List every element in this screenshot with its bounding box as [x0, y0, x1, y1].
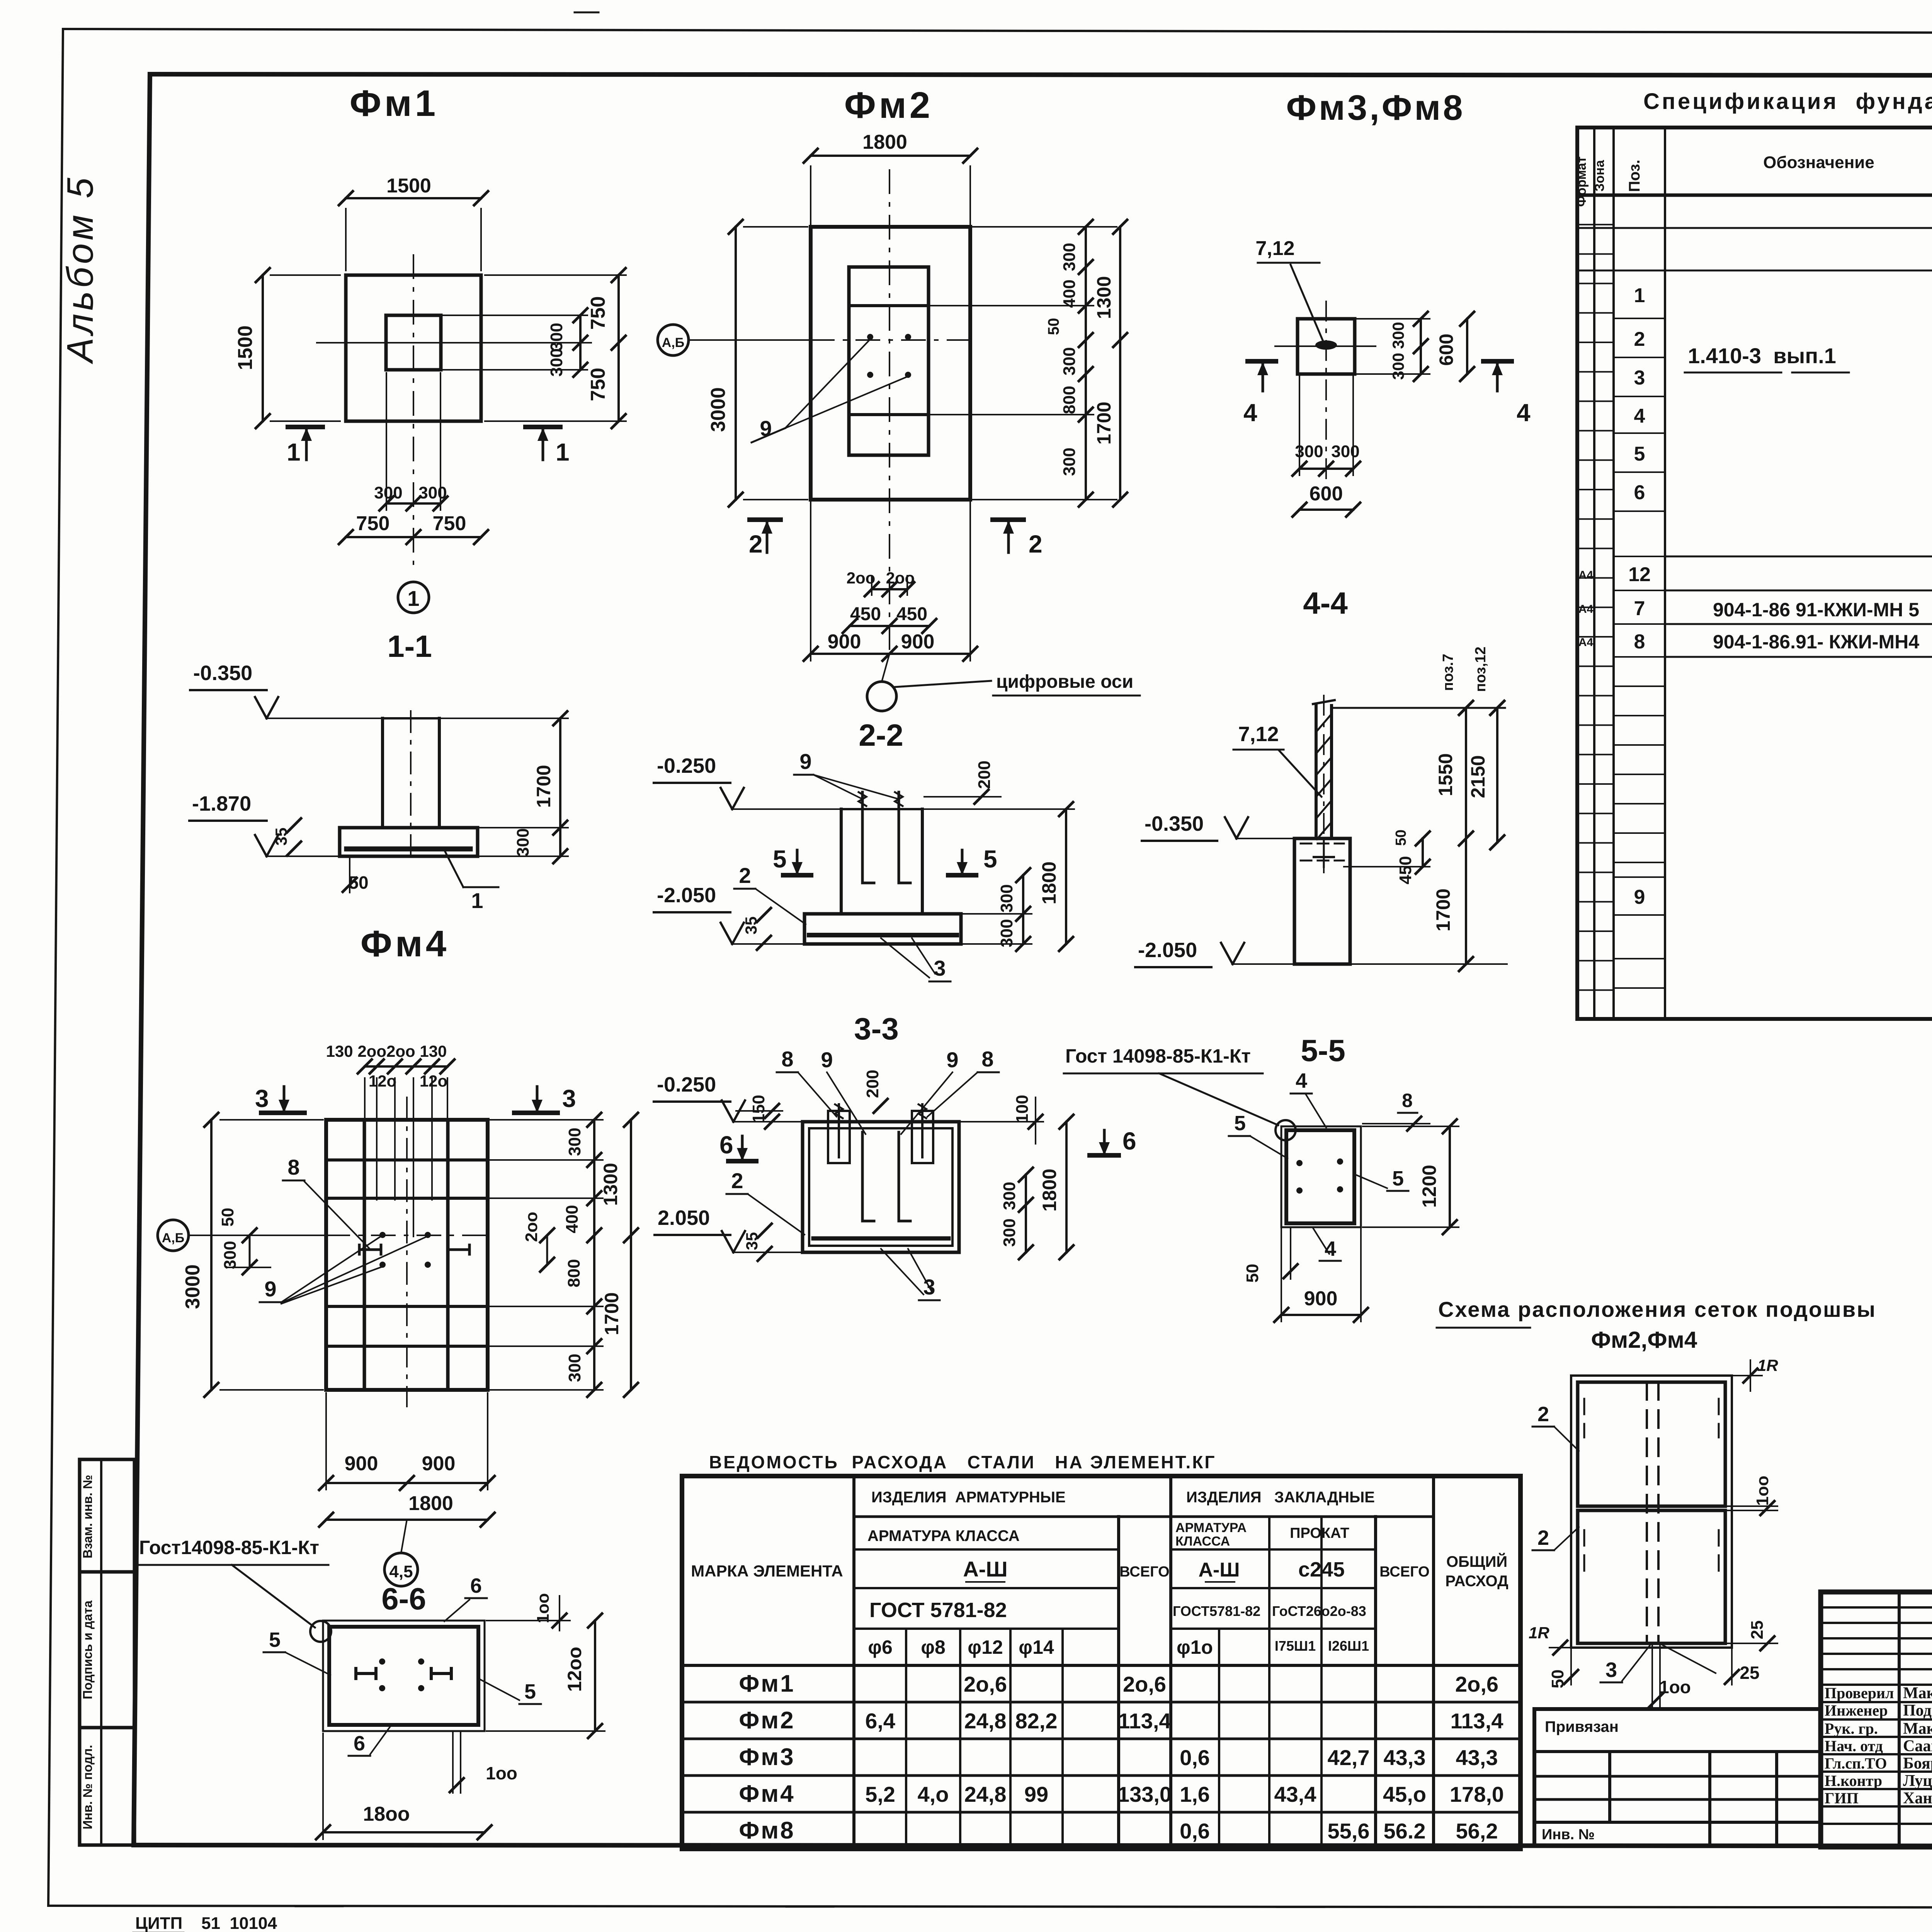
plan Фм3 footprint: [1275, 301, 1376, 479]
section 2-2 level -0.250: [654, 754, 839, 809]
svg-text:2о,6: 2о,6: [1455, 1672, 1498, 1696]
svg-text:1оо: 1оо: [534, 1593, 553, 1623]
svg-text:4,5: 4,5: [389, 1562, 413, 1581]
svg-text:99: 99: [1024, 1782, 1048, 1806]
plan Фм1 dims 750 750 right: [485, 268, 626, 428]
svg-text:Гл.сп.ТО: Гл.сп.ТО: [1825, 1755, 1887, 1772]
svg-text:300: 300: [374, 483, 402, 502]
svg-text:Проверил: Проверил: [1825, 1684, 1894, 1702]
svg-text:Ханин: Ханин: [1903, 1789, 1932, 1807]
section 4-4 leader 7,12: [1233, 723, 1321, 797]
svg-text:ОБЩИЙ: ОБЩИЙ: [1446, 1553, 1507, 1570]
svg-text:24,8: 24,8: [964, 1782, 1007, 1806]
section 3-3 leader 3: [881, 1249, 940, 1300]
svg-text:А4: А4: [1578, 636, 1594, 649]
section 5-5 leader 4 top: [1291, 1069, 1326, 1128]
svg-text:300: 300: [1295, 442, 1323, 461]
svg-text:4,о: 4,о: [918, 1782, 949, 1806]
section 2-2 leader 3: [881, 938, 951, 981]
plan Фм1 dims 750 750 bottom: [339, 512, 488, 544]
svg-text:800: 800: [565, 1259, 583, 1287]
plan Фм3 dim 600 bottom: [1293, 483, 1360, 517]
svg-text:750: 750: [433, 512, 466, 535]
mesh leader 3: [1600, 1645, 1716, 1682]
plan Фм1 dims 300 300 bottom: [374, 373, 447, 510]
svg-text:900: 900: [345, 1452, 378, 1475]
svg-text:φ1о: φ1о: [1177, 1636, 1213, 1658]
svg-text:2: 2: [1537, 1403, 1549, 1426]
svg-text:1800: 1800: [408, 1492, 453, 1515]
plan Фм1 dims 300 300 right: [441, 308, 587, 377]
svg-text:1: 1: [287, 438, 301, 466]
svg-text:А,Б: А,Б: [162, 1231, 184, 1245]
svg-text:Альбом 5: Альбом 5: [60, 175, 101, 364]
svg-text:-0.350: -0.350: [193, 662, 252, 685]
svg-text:300: 300: [565, 1128, 584, 1156]
mesh dim 25 bottom right: [1725, 1649, 1760, 1685]
svg-text:Подпись и дата: Подпись и дата: [80, 1600, 95, 1699]
svg-text:Н.контр: Н.контр: [1825, 1772, 1882, 1789]
mesh mark 1R top: [1732, 1356, 1778, 1391]
svg-text:900: 900: [828, 631, 861, 653]
svg-text:цифровые оси: цифровые оси: [996, 672, 1133, 692]
svg-text:2: 2: [749, 530, 763, 558]
svg-text:1800: 1800: [862, 131, 907, 153]
section 1-1 level -0.350: [190, 662, 381, 718]
mesh layout title: [1437, 1297, 1876, 1353]
svg-text:Гост14098-85-К1-Кт: Гост14098-85-К1-Кт: [139, 1537, 319, 1558]
specification table grid: [1577, 89, 1932, 1020]
svg-text:6: 6: [719, 1131, 733, 1159]
svg-text:МАРКА ЭЛЕМЕНТА: МАРКА ЭЛЕМЕНТА: [691, 1562, 843, 1580]
steel consumption table grid: [682, 1452, 1520, 1849]
svg-text:300: 300: [997, 884, 1016, 912]
section 3-3 sect mark 6 left: [719, 1131, 756, 1161]
svg-text:5,2: 5,2: [865, 1782, 895, 1806]
svg-text:-0.250: -0.250: [657, 1073, 716, 1096]
mesh layout drawing: [1571, 1376, 1732, 1648]
svg-text:1оо: 1оо: [486, 1763, 517, 1783]
section 3-3 footing pockets rebars: [803, 1104, 959, 1252]
left stamp sidebar: [80, 1459, 134, 1845]
section 5-5 pier cross-section: [1281, 1126, 1361, 1227]
svg-text:904-1-86.91- КЖИ-МН4: 904-1-86.91- КЖИ-МН4: [1713, 631, 1919, 653]
svg-text:100: 100: [1013, 1095, 1032, 1123]
svg-text:904-1-86 91-КЖИ-МН 5: 904-1-86 91-КЖИ-МН 5: [1713, 599, 1919, 621]
album label: [60, 175, 101, 364]
svg-text:I26Ш1: I26Ш1: [1328, 1638, 1369, 1654]
top margin dash: [575, 12, 599, 14]
plan Фм3 dims 300 300 right: [1355, 312, 1430, 381]
svg-text:-0.350: -0.350: [1145, 812, 1204, 835]
svg-text:3: 3: [562, 1085, 576, 1112]
svg-text:Подобный: Подобный: [1903, 1702, 1932, 1719]
section 1-1 dim 50: [343, 858, 369, 893]
svg-text:Фм2,Фм4: Фм2,Фм4: [1591, 1327, 1697, 1353]
svg-text:9: 9: [799, 749, 811, 774]
svg-text:А4: А4: [1578, 603, 1594, 616]
steel consumption table body: [739, 1670, 1504, 1844]
svg-text:9: 9: [821, 1048, 833, 1072]
svg-text:300: 300: [1060, 347, 1079, 375]
svg-text:4: 4: [1634, 405, 1645, 427]
svg-text:7: 7: [1634, 597, 1645, 620]
section 6-6 leader 6 top: [444, 1574, 487, 1621]
svg-text:поз.7: поз.7: [1440, 654, 1456, 691]
svg-text:4: 4: [1517, 399, 1531, 427]
svg-text:300: 300: [1331, 442, 1359, 461]
plan Фм2 axis А,Б: [658, 325, 970, 355]
svg-text:5: 5: [1634, 443, 1645, 465]
svg-text:-1.870: -1.870: [192, 792, 251, 815]
svg-text:Саакьянц: Саакьянц: [1903, 1737, 1932, 1755]
plan Фм4 dim 3000 left: [182, 1113, 323, 1397]
svg-text:А4: А4: [1578, 569, 1594, 582]
section 6-6 dim 1800 bottom: [316, 1733, 492, 1839]
svg-text:2150: 2150: [1467, 755, 1489, 798]
plan Фм2 dims 1300 1700 right: [1093, 220, 1127, 507]
plan Фм1 dim 1500 top: [339, 175, 488, 270]
section 4-4 dims 50 450: [1344, 830, 1430, 884]
svg-text:4: 4: [1243, 399, 1257, 427]
mesh leader 2 lower: [1532, 1526, 1579, 1550]
svg-text:18оо: 18оо: [363, 1803, 410, 1825]
section 6-6 ГОСТ label: [138, 1537, 331, 1642]
section 5-5 ГОСТ label: [1064, 1045, 1296, 1140]
plan Фм4 anchor bolts: [379, 1232, 431, 1268]
section 3-3 dim 200 top: [862, 1070, 888, 1124]
svg-text:5: 5: [1234, 1112, 1246, 1135]
svg-text:ГОСТ 5781-82: ГОСТ 5781-82: [869, 1599, 1007, 1622]
svg-text:А,Б: А,Б: [662, 335, 684, 350]
svg-text:50: 50: [218, 1208, 237, 1227]
svg-text:750: 750: [587, 368, 609, 401]
svg-text:2оо: 2оо: [886, 569, 915, 587]
plan Фм1 section mark 1 left: [287, 427, 323, 466]
svg-text:2о,6: 2о,6: [964, 1672, 1007, 1696]
specification table designations: [1685, 344, 1919, 653]
svg-text:Фм1: Фм1: [739, 1670, 795, 1697]
section 4-4 dims 1550 1700 right: [1352, 701, 1507, 971]
svg-text:Зона: Зона: [1592, 160, 1607, 192]
svg-text:4: 4: [1296, 1069, 1307, 1092]
svg-text:6: 6: [470, 1574, 482, 1597]
plan Фм4 dim 200 midright: [522, 1212, 554, 1272]
mesh mark 1R bottom: [1529, 1624, 1571, 1655]
svg-text:50: 50: [1243, 1264, 1262, 1283]
svg-text:35: 35: [742, 917, 760, 935]
section 3-3 leader 2: [726, 1168, 804, 1235]
svg-text:12о: 12о: [369, 1072, 396, 1090]
svg-text:КЛАССА: КЛАССА: [1175, 1534, 1230, 1549]
section 2-2 sect mark 5 left: [773, 845, 811, 875]
svg-text:5: 5: [983, 845, 997, 873]
svg-text:8: 8: [781, 1047, 793, 1071]
binding box: [1534, 1709, 1821, 1845]
svg-text:ВСЕГО: ВСЕГО: [1119, 1564, 1169, 1580]
svg-text:43,3: 43,3: [1456, 1745, 1498, 1770]
svg-text:6: 6: [1122, 1127, 1136, 1155]
section 6-6 footing plan: [323, 1621, 485, 1731]
svg-text:300: 300: [1389, 322, 1407, 349]
plan Фм3 leader 7,12: [1255, 237, 1337, 350]
section 2-2 dims 300 300 right: [963, 868, 1032, 951]
svg-text:ВЕДОМОСТЬ РАСХОДА СТАЛИ Н: ВЕДОМОСТЬ РАСХОДА СТАЛИ НА ЭЛЕМЕНТ.КГ: [709, 1452, 1216, 1472]
section 4-4 steel column and pier: [1294, 696, 1350, 964]
svg-text:1-1: 1-1: [387, 629, 432, 663]
section 2-2 dim 35: [742, 908, 771, 950]
section 3-3 level 2.050: [655, 1206, 801, 1252]
svg-text:1500: 1500: [386, 175, 431, 197]
section 2-2 leader 9: [794, 749, 899, 799]
section 4-4 dim 2150 right: [1467, 701, 1504, 849]
section 4-4 level -2.050: [1135, 939, 1294, 967]
svg-text:3000: 3000: [707, 387, 730, 432]
plan Фм1 title: [350, 83, 439, 124]
svg-text:φ14: φ14: [1019, 1636, 1054, 1658]
svg-text:300: 300: [221, 1241, 240, 1269]
svg-text:5: 5: [773, 845, 787, 873]
svg-text:1700: 1700: [1093, 401, 1115, 444]
plan Фм2 section mark 2 right: [993, 520, 1043, 558]
section 3-3 dim 100 right: [961, 1095, 1043, 1144]
section 3-3 leader 8 left: [777, 1047, 837, 1117]
plan Фм3 Фм8 title: [1286, 88, 1465, 128]
plan Фм4 footprint: [326, 1097, 488, 1406]
svg-text:1: 1: [407, 586, 419, 611]
svg-text:Спецификация фундаментов Фм1: Спецификация фундаментов Фм1-Фм4, Фм8: [1643, 89, 1932, 114]
svg-text:1200: 1200: [1418, 1165, 1440, 1207]
svg-text:ГоСТ26о2о-83: ГоСТ26о2о-83: [1272, 1603, 1366, 1619]
svg-text:25: 25: [1740, 1663, 1759, 1683]
mesh dim 25 right: [1727, 1621, 1777, 1650]
title block grid: [1821, 1592, 1932, 1847]
svg-text:ЦИТП 51 10104: ЦИТП 51 10104: [135, 1914, 277, 1932]
svg-text:Фм3: Фм3: [739, 1744, 795, 1770]
plan Фм1 section mark 1 right: [526, 427, 570, 466]
svg-text:2: 2: [1029, 530, 1043, 558]
svg-text:2о,6: 2о,6: [1123, 1672, 1166, 1696]
section 1-1 dim 35: [272, 818, 301, 855]
svg-text:900: 900: [1304, 1287, 1338, 1310]
svg-text:ПРОКАТ: ПРОКАТ: [1290, 1525, 1349, 1541]
mesh dim 100 right: [1727, 1476, 1777, 1515]
svg-text:А-Ш: А-Ш: [963, 1557, 1007, 1581]
section 6-6 leader 5 left: [264, 1628, 330, 1675]
svg-text:I75Ш1: I75Ш1: [1275, 1638, 1316, 1654]
svg-text:450: 450: [850, 604, 881, 624]
svg-text:1300: 1300: [600, 1163, 621, 1206]
svg-text:113,4: 113,4: [1118, 1709, 1171, 1733]
svg-text:6-6: 6-6: [381, 1582, 426, 1616]
svg-text:300: 300: [418, 483, 447, 502]
plan Фм2 dims 900 900 bottom: [804, 502, 977, 661]
plan Фм4 dims 120 120: [369, 1072, 447, 1090]
svg-text:1800: 1800: [1038, 861, 1060, 904]
svg-text:300: 300: [1000, 1218, 1019, 1247]
svg-text:2: 2: [731, 1168, 743, 1193]
svg-text:1700: 1700: [1432, 888, 1454, 931]
svg-text:82,2: 82,2: [1015, 1709, 1058, 1733]
title block signatures: [1825, 1684, 1932, 1807]
svg-text:450: 450: [896, 604, 927, 624]
svg-text:1700: 1700: [601, 1292, 622, 1335]
section 6-6 dim 100 right top: [486, 1593, 570, 1631]
svg-text:1700: 1700: [533, 765, 554, 808]
svg-text:Нач. отд: Нач. отд: [1825, 1737, 1883, 1755]
svg-text:800: 800: [1060, 386, 1079, 414]
section 2-2 leader 2: [734, 863, 806, 924]
svg-text:φ8: φ8: [921, 1636, 946, 1658]
section 3-3 leader 9 left: [821, 1048, 866, 1134]
svg-text:6: 6: [1634, 481, 1645, 504]
svg-text:φ12: φ12: [968, 1636, 1003, 1658]
plan Фм2 dim 1800 top: [804, 131, 977, 224]
svg-text:Привязан: Привязан: [1545, 1718, 1619, 1735]
svg-text:5: 5: [269, 1628, 281, 1651]
svg-text:9: 9: [1634, 886, 1645, 908]
svg-text:133,0: 133,0: [1117, 1782, 1172, 1806]
svg-text:35: 35: [743, 1232, 761, 1250]
svg-text:2: 2: [1634, 328, 1645, 350]
section 2-2 level -2.050: [654, 884, 803, 944]
svg-text:6: 6: [354, 1732, 365, 1755]
svg-text:130 2оо2оо 130: 130 2оо2оо 130: [326, 1042, 447, 1060]
plan Фм2 anchor bolts 9: [752, 334, 911, 442]
svg-text:8: 8: [1402, 1090, 1413, 1111]
svg-text:7,12: 7,12: [1255, 237, 1294, 260]
svg-text:1R: 1R: [1757, 1356, 1778, 1374]
svg-text:Взам. инв. №: Взам. инв. №: [80, 1475, 95, 1559]
svg-text:300: 300: [565, 1354, 584, 1382]
mesh dim 100 bottom: [1649, 1645, 1691, 1708]
plan Фм2 axis bubble bottom: [867, 654, 1140, 711]
svg-text:3000: 3000: [182, 1264, 204, 1309]
plan Фм4 dim 1800 bottom: [319, 1492, 495, 1527]
svg-text:2оо: 2оо: [522, 1212, 541, 1242]
plan Фм2 dims 200 200 bottom: [847, 569, 915, 596]
svg-text:300: 300: [1060, 447, 1079, 476]
plan Фм4 sect mark 3 right: [514, 1085, 576, 1113]
section 3-3 level -0250: [654, 1073, 801, 1122]
svg-text:200: 200: [863, 1070, 882, 1098]
section 3-3 dim 35: [743, 1224, 772, 1261]
svg-text:300: 300: [1060, 243, 1079, 271]
section 2-2 label: [859, 718, 903, 752]
section 1-1 column and footing: [340, 711, 478, 862]
section 4-4 level -0.350: [1142, 812, 1294, 841]
svg-text:1550: 1550: [1435, 753, 1456, 796]
svg-text:300: 300: [547, 348, 566, 376]
plan Фм2 dim 3000 left: [707, 220, 808, 507]
plan Фм4 dims 900 900 bottom: [319, 1393, 495, 1490]
svg-text:1.410-3 вып.1: 1.410-3 вып.1: [1688, 344, 1836, 368]
svg-text:12: 12: [1628, 563, 1651, 586]
svg-text:6,4: 6,4: [865, 1709, 895, 1733]
section 5-5 dim 50: [1243, 1229, 1298, 1282]
steel consumption table headers: [691, 1489, 1508, 1658]
svg-text:ГИП: ГИП: [1825, 1789, 1859, 1807]
svg-text:φ6: φ6: [868, 1636, 893, 1658]
svg-text:3: 3: [1634, 367, 1645, 389]
svg-text:25: 25: [1748, 1621, 1767, 1639]
svg-text:600: 600: [1310, 483, 1343, 505]
section 1-1 leader 1: [444, 850, 498, 913]
section 5-5 label: [1301, 1033, 1345, 1068]
svg-text:0,6: 0,6: [1180, 1745, 1210, 1770]
svg-text:300: 300: [1000, 1182, 1019, 1210]
section 4-4 label: [1303, 586, 1348, 620]
section 6-6 leader 5 right: [479, 1679, 541, 1704]
svg-text:9: 9: [946, 1048, 958, 1072]
svg-text:300: 300: [1389, 353, 1407, 380]
svg-text:2.050: 2.050: [658, 1206, 710, 1230]
section 2-2 dim 1800 right: [924, 802, 1074, 951]
svg-text:4-4: 4-4: [1303, 586, 1348, 620]
ЦИТП stamp: [133, 1914, 277, 1932]
svg-text:Фм4: Фм4: [361, 923, 449, 964]
svg-text:50: 50: [1393, 830, 1409, 846]
section 5-5 dim 1200 right: [1363, 1119, 1459, 1234]
plan Фм4 sect mark 3 left: [255, 1085, 304, 1113]
section 3-3 leader 8 right: [927, 1047, 999, 1117]
section 3-3 dims 300 300 right: [1000, 1168, 1033, 1259]
svg-text:ИЗДЕЛИЯ ЗАКЛАДНЫЕ: ИЗДЕЛИЯ ЗАКЛАДНЫЕ: [1186, 1489, 1375, 1506]
svg-text:1300: 1300: [1093, 276, 1115, 319]
plan Фм1 dim 1500 left: [234, 268, 340, 428]
section 5-5 dim 900 bottom: [1274, 1229, 1368, 1322]
svg-text:55,6: 55,6: [1328, 1819, 1370, 1843]
svg-text:1: 1: [1634, 284, 1645, 307]
section 5-5 leader 4 bottom: [1313, 1228, 1341, 1261]
svg-text:Фм2: Фм2: [739, 1707, 795, 1734]
svg-text:Фм4: Фм4: [739, 1781, 795, 1807]
svg-text:43,4: 43,4: [1274, 1782, 1316, 1806]
section 2-2 dim 200 right: [924, 760, 1001, 804]
svg-text:Инженер: Инженер: [1825, 1702, 1888, 1719]
svg-text:400: 400: [563, 1205, 582, 1233]
svg-text:поз,12: поз,12: [1473, 646, 1489, 692]
plan Фм3 section mark 4 left: [1243, 361, 1276, 427]
section 4-4 top dims поз7 поз12: [1332, 646, 1505, 715]
svg-text:45,о: 45,о: [1383, 1782, 1426, 1806]
mesh dim 50 bottom: [1548, 1649, 1578, 1688]
section 6-6 label: [381, 1582, 426, 1616]
svg-text:600: 600: [1435, 333, 1457, 366]
svg-text:300: 300: [997, 919, 1016, 947]
section 3-3 dim 1800 right: [1039, 1115, 1073, 1259]
section 5-5 leader 5 right: [1355, 1167, 1408, 1191]
svg-text:178,0: 178,0: [1450, 1782, 1504, 1806]
svg-text:56.2: 56.2: [1384, 1819, 1426, 1843]
svg-text:750: 750: [356, 512, 390, 535]
svg-text:Фм3,Фм8: Фм3,Фм8: [1286, 88, 1465, 128]
plan Фм4 axis А,Б: [158, 1220, 488, 1251]
svg-text:1500: 1500: [234, 325, 257, 370]
svg-text:56,2: 56,2: [1456, 1819, 1498, 1843]
svg-text:5: 5: [1392, 1167, 1404, 1190]
svg-text:3-3: 3-3: [854, 1012, 899, 1046]
svg-text:750: 750: [587, 296, 609, 330]
svg-text:3: 3: [255, 1085, 269, 1112]
plan Фм2 dims 450 450 bottom: [843, 604, 936, 633]
plan Фм2 footprint: [811, 170, 970, 653]
svg-text:Фм8: Фм8: [739, 1817, 795, 1844]
svg-text:с245: с245: [1298, 1558, 1345, 1581]
svg-text:9: 9: [264, 1277, 276, 1301]
svg-text:2-2: 2-2: [859, 718, 903, 752]
svg-text:12о: 12о: [420, 1072, 447, 1090]
